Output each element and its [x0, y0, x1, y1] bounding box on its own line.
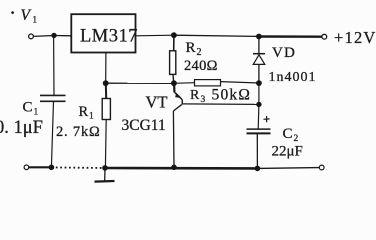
svg-text:VT: VT	[146, 93, 168, 112]
svg-text:V: V	[21, 7, 32, 24]
svg-text:C: C	[23, 100, 33, 116]
svg-text:2. 7kΩ: 2. 7kΩ	[56, 124, 101, 140]
svg-text:1n4001: 1n4001	[269, 70, 317, 85]
svg-text:1: 1	[34, 108, 39, 118]
svg-text:3: 3	[201, 95, 206, 105]
svg-text:2: 2	[294, 134, 299, 144]
svg-text:R: R	[186, 40, 196, 56]
svg-text:22μF: 22μF	[272, 144, 303, 160]
svg-text:3CG11: 3CG11	[122, 117, 166, 134]
svg-text:50kΩ: 50kΩ	[212, 87, 252, 104]
svg-text:LM317: LM317	[80, 27, 138, 47]
svg-text:+12V: +12V	[334, 28, 376, 47]
svg-text:1: 1	[33, 15, 38, 25]
svg-text:2: 2	[197, 47, 202, 58]
svg-text:240Ω: 240Ω	[184, 58, 218, 74]
svg-text:VD: VD	[272, 45, 296, 61]
svg-text:0. 1μF: 0. 1μF	[0, 118, 43, 138]
svg-text:R: R	[190, 88, 200, 103]
svg-text:C: C	[283, 126, 293, 142]
svg-text:1: 1	[89, 112, 94, 122]
svg-text:R: R	[79, 104, 89, 120]
